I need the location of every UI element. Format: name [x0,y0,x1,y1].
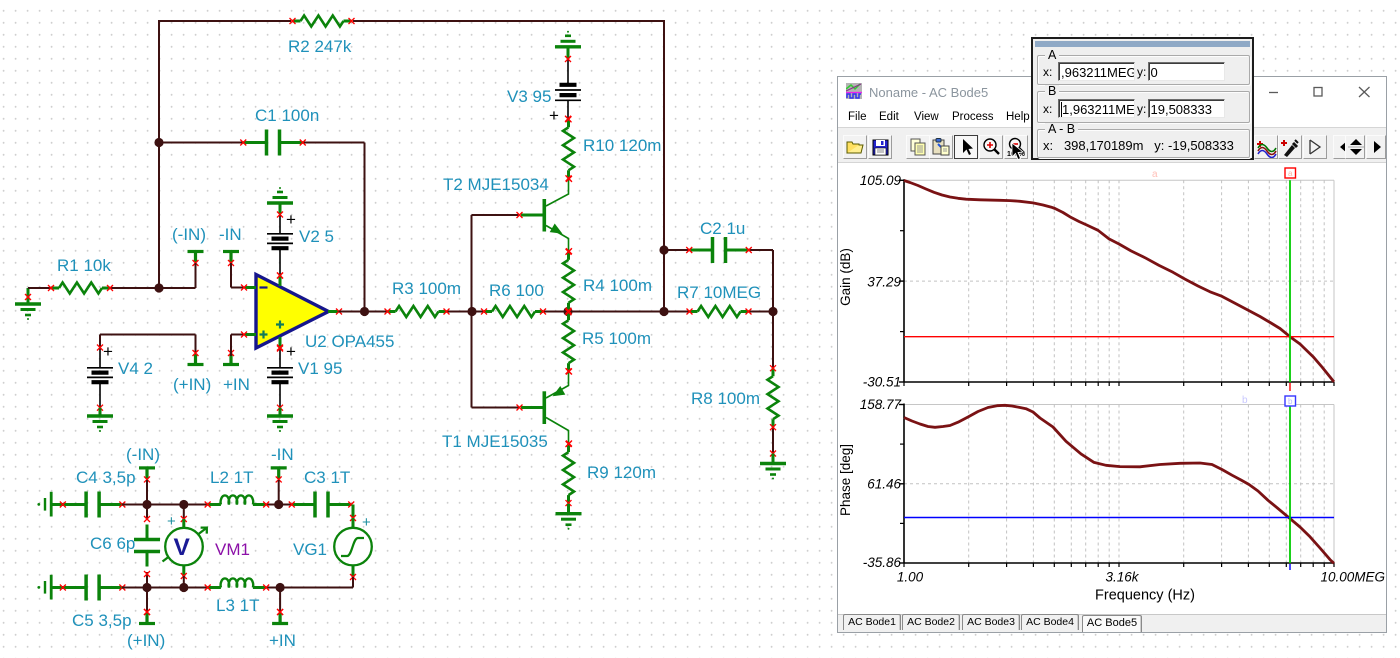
resistor R7 [690,310,698,313]
voltmeter VM1 [183,505,185,520]
svg-text:+: + [103,342,113,361]
capacitor C1 [243,141,266,144]
wire V4 row [100,334,196,336]
resistor R5 [567,312,570,320]
svg-text:R1 10k: R1 10k [57,256,111,275]
tab strip [838,614,1386,632]
node junctions top row [142,500,151,509]
wire C1 row [159,142,243,144]
svg-text:(-IN): (-IN) [126,445,160,464]
cursor blue horizontal [904,517,1334,519]
resistor R4 [567,252,570,260]
wire bottom row [122,587,208,589]
svg-text:Gain (dB): Gain (dB) [838,248,853,306]
op-amp U2 OPA455 [256,275,329,349]
svg-text:Phase [deg]: Phase [deg] [838,444,853,516]
svg-text:(+IN): (+IN) [127,631,165,650]
svg-text:b: b [1288,397,1293,406]
wire top feedback run [159,20,291,22]
wire C2 row [664,249,690,251]
svg-text:+: + [362,514,371,531]
svg-text:-IN: -IN [219,225,242,244]
svg-text:T1 MJE15035: T1 MJE15035 [442,432,548,451]
svg-text:b: b [1242,395,1248,406]
wire (-IN) drop bottom [146,480,148,505]
terminal +IN left [223,363,239,366]
svg-text:C2 1u: C2 1u [700,219,745,238]
svg-text:V: V [174,534,191,561]
gain curve [904,181,1334,382]
svg-text:C3 1T: C3 1T [304,468,350,487]
cursor green vertical gain [1289,180,1291,382]
wire left feedback vertical [158,20,160,289]
battery V2 [279,214,281,234]
node junction R1/feedback [154,283,163,292]
svg-text:158.77: 158.77 [860,397,902,412]
wire R8 drop [772,312,774,372]
inductor L3 [221,578,254,587]
svg-text:VG1: VG1 [293,540,327,559]
svg-text:a: a [1152,169,1158,180]
plot client area [838,167,1386,614]
svg-text:a: a [1288,169,1293,178]
ground V3 top [567,47,570,59]
cursor red horizontal [904,336,1334,338]
resistor R2 [293,20,301,23]
svg-text:L2 1T: L2 1T [210,468,253,487]
wire right feedback vertical [663,20,665,313]
node junction C1 left [154,138,163,147]
svg-text:-35.86: -35.86 [863,555,902,570]
wire +IN to opamp [230,335,232,357]
svg-text:R9 120m: R9 120m [587,463,656,482]
svg-text:105.09: 105.09 [860,173,902,188]
window AC Bode5 [837,76,1387,633]
menu bar [838,111,1386,127]
resistor R10 [567,119,570,127]
wire (-IN) drop [195,263,197,288]
wire C3 to VG1 [352,505,354,518]
svg-text:VM1: VM1 [215,540,250,559]
svg-text:61.46: 61.46 [867,477,901,492]
svg-text:+IN: +IN [269,631,296,650]
wire R1 row [28,287,52,289]
pin end cap C5 [37,586,40,589]
title bar [838,77,1386,108]
node junction C2 left [659,245,668,254]
svg-text:C6 6p: C6 6p [90,534,135,553]
battery V1 [279,348,281,368]
svg-text:R2 247k: R2 247k [288,37,352,56]
svg-text:C1 100n: C1 100n [255,106,319,125]
cursor handle b [1285,396,1296,406]
wire -IN to opamp [230,263,232,288]
svg-text:+: + [167,513,176,530]
svg-text:Frequency (Hz): Frequency (Hz) [1095,588,1195,604]
capacitor C3 [292,503,315,506]
terminal (-IN) top [188,250,204,253]
generator VG1 [352,518,355,529]
svg-text:U2 OPA455: U2 OPA455 [305,332,394,351]
svg-text:1.00: 1.00 [897,570,924,585]
caption buttons [1264,82,1384,102]
wire main output row [339,311,389,313]
wire -IN drop bottom [278,480,280,505]
toolbar [838,127,1386,163]
capacitor C2 [689,249,712,252]
capacitor C4 [63,503,86,506]
terminal -IN bottom [271,466,287,469]
inductor L2 [221,495,254,504]
group A [1037,55,1250,86]
svg-text:V2 5: V2 5 [299,227,334,246]
mouse cursor [1010,142,1028,162]
pin end cap C4 [37,503,40,506]
svg-text:R7 10MEG: R7 10MEG [677,283,761,302]
terminal (+IN) bottom [146,588,148,613]
svg-text:37.29: 37.29 [867,275,901,290]
ground V1 [279,408,282,416]
app icon [846,83,862,99]
svg-text:-30.51: -30.51 [863,375,901,390]
node junctions bottom row [142,583,151,592]
svg-text:L3 1T: L3 1T [216,596,259,615]
svg-text:(-IN): (-IN) [172,225,206,244]
svg-text:R4 100m: R4 100m [583,276,652,295]
terminal -IN top [223,250,239,253]
resistor R8 [772,368,775,376]
ground V2 top [279,203,282,214]
svg-text:R5 100m: R5 100m [582,329,651,348]
svg-text:V1 95: V1 95 [298,359,342,378]
wire top row bottom network [122,504,208,506]
svg-text:C5 3,5p: C5 3,5p [72,611,132,630]
group A-B [1037,129,1250,158]
svg-text:V3 95: V3 95 [507,87,551,106]
ground V4 [99,408,102,416]
battery V4 [99,348,101,368]
transistor T1 MJE15035 [542,391,546,424]
resistor R6 [484,310,492,313]
ground R9 [567,504,570,514]
cursor green vertical phase [1289,405,1291,564]
resistor R3 [388,310,396,313]
svg-text:+: + [549,106,559,125]
terminal +IN bottom [279,588,281,613]
svg-text:+: + [286,210,296,229]
svg-text:10.00MEG: 10.00MEG [1320,570,1385,585]
terminal (-IN) bottom [139,466,155,469]
svg-text:(+IN): (+IN) [173,375,211,394]
resistor R9 [567,444,570,452]
svg-text:3.16k: 3.16k [1105,570,1139,585]
ground R8 [772,454,775,464]
svg-text:T2 MJE15034: T2 MJE15034 [443,175,549,194]
resistor R1 [51,287,59,290]
svg-text:R6 100: R6 100 [489,281,544,300]
capacitor C5 [63,586,86,589]
svg-text:+: + [286,342,296,361]
group B [1037,91,1250,123]
terminal (+IN) left [188,363,204,366]
svg-text:R8 100m: R8 100m [691,389,760,408]
svg-text:-IN: -IN [271,445,294,464]
wire C1 right vertical [364,143,366,313]
dialog cursor A/B values [1031,37,1254,160]
svg-text:R3 100m: R3 100m [392,279,461,298]
battery V3 [567,59,569,85]
svg-text:+IN: +IN [223,375,250,394]
node junctions main row [360,307,369,316]
capacitor C6 [146,505,148,520]
svg-text:V4 2: V4 2 [118,359,153,378]
transistor T2 MJE15034 [542,199,546,232]
ground input left [27,288,30,304]
svg-text:R10 120m: R10 120m [583,136,661,155]
phase curve [904,405,1334,563]
cursor handle a [1285,168,1296,178]
svg-text:C4 3,5p: C4 3,5p [76,468,136,487]
wire base column [472,214,521,216]
